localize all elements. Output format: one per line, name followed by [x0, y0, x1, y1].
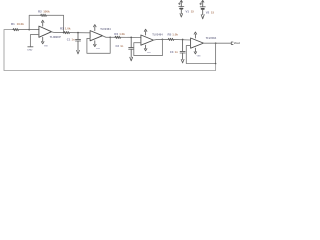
svg-text:R3: R3 — [60, 26, 64, 30]
power pin V- U4 — [194, 48, 197, 54]
svg-text:1n: 1n — [72, 38, 75, 42]
svg-text:TL082CP: TL082CP — [50, 35, 61, 39]
svg-text:R5: R5 — [168, 33, 172, 37]
svg-text:R2: R2 — [38, 10, 42, 14]
node junction feedback4 top — [215, 42, 217, 44]
plus sign V1 — [178, 3, 180, 5]
svg-text:TLV2464: TLV2464 — [100, 27, 111, 31]
svg-text:VEE: VEE — [44, 46, 49, 48]
svg-text:VEE: VEE — [197, 55, 202, 57]
op-amp U1 — [39, 26, 52, 37]
svg-text:100k: 100k — [43, 10, 50, 14]
svg-text:10.0k: 10.0k — [17, 22, 25, 26]
node junction feedback1 — [28, 29, 30, 31]
ground arrow C1 — [77, 50, 80, 54]
ground arrow C2 — [130, 57, 133, 61]
resistor R3 — [64, 32, 70, 34]
capacitor C1 — [76, 33, 81, 51]
wire feedback loop stage2 — [87, 37, 110, 53]
node junction R2-R3 — [63, 32, 65, 34]
svg-text:VEE: VEE — [147, 52, 152, 54]
svg-text:1.0k: 1.0k — [119, 32, 125, 36]
power pin V- U2 — [94, 41, 97, 47]
wire R3 to op-amp U2 — [70, 32, 91, 34]
node junction feedback2 — [109, 36, 111, 38]
wire R4 to op-amp U3 — [121, 36, 141, 38]
wire R2 to stage1 output — [47, 15, 64, 32]
wire stage2 output — [103, 36, 116, 38]
op-amp U4 — [191, 38, 204, 48]
ground arrow V1 — [180, 14, 183, 17]
svg-text:C2: C2 — [116, 44, 120, 48]
svg-text:15: 15 — [191, 9, 195, 13]
node junction C1 — [77, 32, 79, 34]
resistor R1 — [13, 29, 19, 31]
node junction C3 — [182, 39, 184, 41]
svg-text:1.0k: 1.0k — [65, 26, 71, 30]
svg-text:1n: 1n — [175, 50, 178, 54]
node junction feedback4 bottom — [215, 63, 217, 65]
svg-text:R1: R1 — [11, 22, 15, 26]
ground arrow V2 — [201, 15, 204, 19]
power pin V+ U3 — [144, 29, 147, 35]
svg-text:VEE: VEE — [96, 48, 101, 50]
power pin V+ U4 — [194, 32, 197, 38]
svg-text:1n: 1n — [120, 44, 123, 48]
svg-text:Vout: Vout — [234, 41, 240, 45]
wire feedback loop stage4 — [186, 43, 215, 63]
wire feedback loop stage1 up and over — [29, 15, 41, 29]
op-amp U2 — [90, 31, 102, 41]
capacitor C2 — [129, 37, 134, 57]
wire stage3 output — [154, 38, 169, 41]
svg-text:R4: R4 — [114, 32, 118, 36]
terminal Vout — [231, 42, 233, 44]
wire R1 to op-amp U1 inverting input — [19, 29, 39, 31]
svg-text:15: 15 — [211, 11, 215, 15]
svg-text:V1: V1 — [186, 9, 190, 13]
node junction C2 — [130, 37, 132, 39]
svg-text:1.0k: 1.0k — [172, 33, 178, 37]
node junction feedback3 — [162, 39, 164, 41]
wire stage4 output to terminal — [204, 42, 232, 44]
power pin V+ U1 — [41, 20, 44, 26]
svg-text:C3: C3 — [170, 50, 174, 54]
wire global feedback loop left and bottom — [4, 30, 216, 71]
source V2 — [200, 0, 205, 14]
resistor R5 — [168, 38, 174, 40]
wire stage1 output to R3 — [52, 31, 65, 34]
resistor R4 — [115, 36, 121, 38]
svg-text:GND: GND — [27, 50, 32, 52]
plus sign V2 — [200, 3, 202, 5]
power pin V- U1 — [41, 37, 44, 44]
wire feedback loop stage3 — [134, 39, 163, 55]
svg-text:V2: V2 — [206, 11, 210, 15]
svg-text:TLV2464: TLV2464 — [152, 33, 163, 37]
wire R5 to op-amp U4 — [174, 38, 191, 41]
source V1 — [179, 0, 184, 13]
ground GND1 — [28, 46, 33, 48]
power pin V- U3 — [144, 45, 147, 51]
power pin V+ U2 — [94, 25, 97, 31]
ground arrow C3 — [181, 59, 184, 63]
capacitor C3 — [180, 40, 185, 60]
svg-text:C1: C1 — [67, 38, 71, 42]
svg-text:TLV2464: TLV2464 — [206, 36, 217, 40]
resistor R2 — [41, 14, 47, 16]
op-amp U3 — [141, 35, 154, 45]
wire U1 +input to ground — [30, 35, 39, 47]
